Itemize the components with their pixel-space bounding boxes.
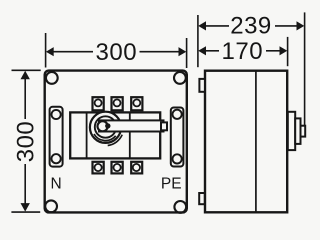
rotary handle base outer circle bbox=[90, 112, 121, 143]
bottom terminal 1 bbox=[93, 162, 104, 174]
handle base middle arc bbox=[94, 134, 116, 141]
svg-text:239: 239 bbox=[230, 13, 272, 40]
170 dimension line bbox=[205, 50, 219, 52]
left N terminal rail bbox=[50, 107, 63, 167]
top 300 extension line right bbox=[186, 38, 188, 68]
239 dimension line bbox=[205, 25, 229, 27]
left 300 dimension line bbox=[24, 78, 26, 119]
svg-text:PE: PE bbox=[161, 176, 182, 193]
bottom terminal 3 bbox=[131, 162, 142, 174]
corner screw top-right bbox=[174, 72, 186, 84]
handle lever bar bbox=[99, 120, 164, 131]
corner screw top-left bbox=[46, 72, 58, 84]
handle side step 1 bbox=[288, 112, 295, 150]
svg-text:170: 170 bbox=[222, 38, 264, 65]
right PE terminal rail bbox=[171, 108, 184, 167]
handle pivot small circle bbox=[98, 121, 108, 131]
corner screw bottom-right bbox=[174, 201, 186, 213]
enclosure front box bbox=[45, 71, 187, 213]
handle side step 2 bbox=[295, 118, 300, 143]
239 right extension line bbox=[304, 12, 306, 125]
switch disconnector body bbox=[70, 112, 160, 158]
handle pivot dot bbox=[105, 123, 110, 128]
svg-text:N: N bbox=[51, 175, 62, 192]
top terminal 1 bbox=[93, 97, 104, 110]
svg-text:300: 300 bbox=[13, 121, 40, 163]
170 right extension line bbox=[287, 37, 289, 66]
handle side step 3 bbox=[301, 126, 306, 137]
svg-text:300: 300 bbox=[96, 39, 138, 66]
side 239/170 left extension line bbox=[197, 15, 199, 67]
lid separation line bbox=[255, 71, 257, 213]
left 300 extension line bottom bbox=[11, 211, 40, 213]
top 300 extension line left bbox=[45, 33, 47, 68]
top terminal 3 bbox=[131, 97, 142, 110]
left 300 extension line top bbox=[12, 69, 41, 71]
corner screw bottom-left bbox=[45, 200, 57, 212]
wall clip bottom bbox=[199, 193, 205, 204]
body divider left bbox=[86, 112, 88, 158]
wall clip top bbox=[199, 79, 205, 92]
handle base inner circle bbox=[95, 116, 116, 137]
top terminal 2 bbox=[112, 97, 123, 110]
bottom terminal 2 bbox=[112, 162, 123, 174]
enclosure side box bbox=[205, 71, 287, 213]
handle grip fillet arc bbox=[108, 135, 123, 146]
handle lever tip bbox=[161, 122, 167, 130]
body divider right bbox=[129, 112, 131, 158]
top 300 dimension line bbox=[53, 51, 93, 53]
